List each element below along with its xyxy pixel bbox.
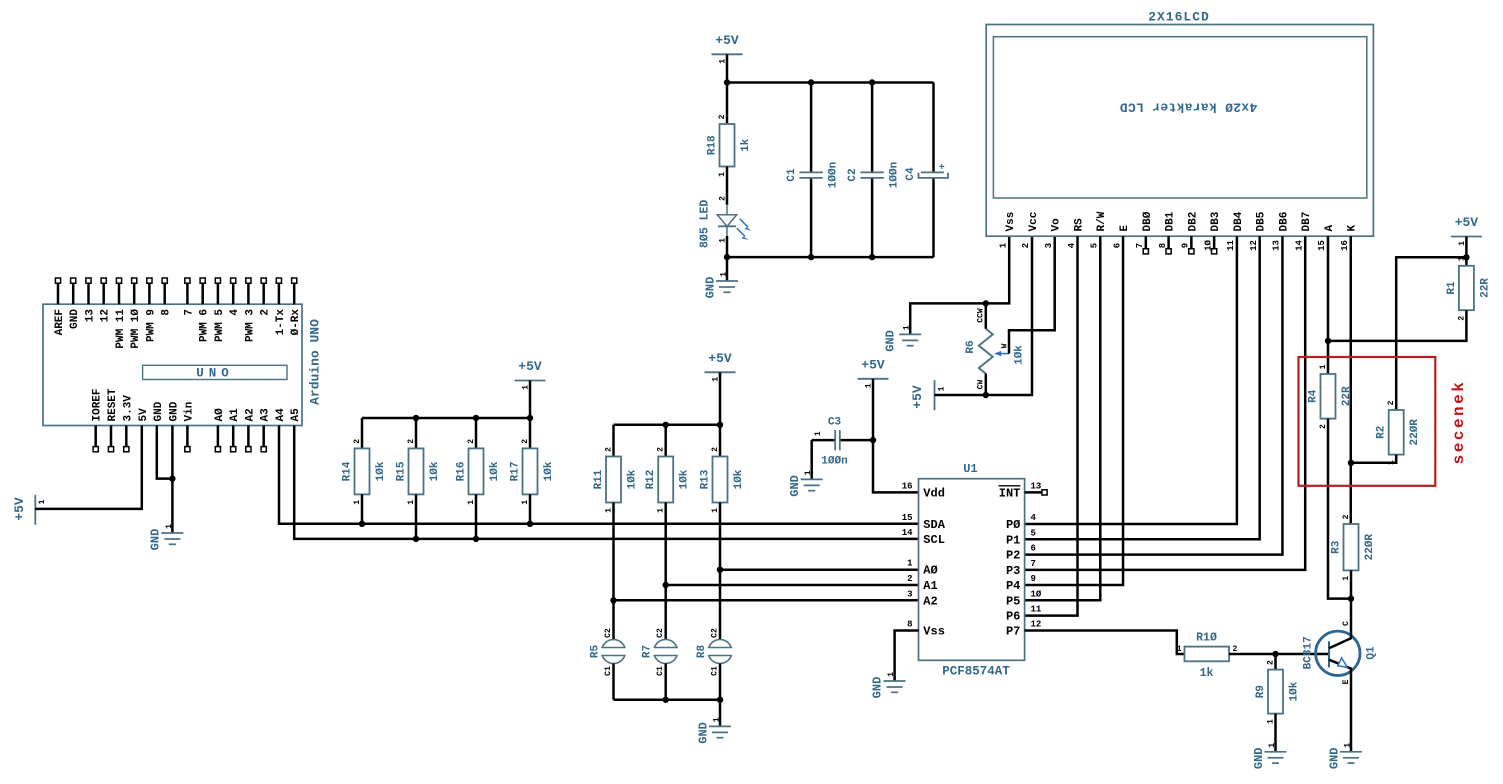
svg-text:7: 7 xyxy=(183,309,195,316)
wire DB6 to P2 xyxy=(1025,236,1283,554)
svg-text:1: 1 xyxy=(907,559,913,569)
wire R13 to node A0 xyxy=(719,503,722,570)
svg-text:GND: GND xyxy=(788,475,802,497)
svg-text:1: 1 xyxy=(887,672,896,677)
svg-text:11: 11 xyxy=(1226,240,1236,251)
resistor R16 xyxy=(469,448,484,494)
wire rail to resistor xyxy=(719,425,722,457)
svg-text:R12: R12 xyxy=(645,470,657,490)
svg-text:Vin: Vin xyxy=(183,402,195,422)
svg-text:1: 1 xyxy=(719,272,728,277)
ground xyxy=(801,478,823,480)
svg-text:C1: C1 xyxy=(786,168,798,182)
Arduino top pin 1-Tx xyxy=(278,283,281,304)
Arduino bottom pin IOREF xyxy=(94,426,97,447)
+5V supply (left) xyxy=(34,495,36,525)
svg-text:C4: C4 xyxy=(905,167,917,181)
svg-text:P2: P2 xyxy=(1006,549,1020,563)
wire +5V to rail xyxy=(719,372,722,425)
svg-text:2: 2 xyxy=(521,439,530,444)
svg-text:R13: R13 xyxy=(699,469,711,489)
wire RS to P6 xyxy=(1025,236,1078,615)
svg-text:R11: R11 xyxy=(593,469,605,489)
svg-text:DB7: DB7 xyxy=(1301,212,1313,232)
Q1 collector xyxy=(1329,599,1351,649)
svg-text:C1: C1 xyxy=(656,666,665,676)
svg-text:A3: A3 xyxy=(260,408,272,422)
svg-text:IOREF: IOREF xyxy=(92,388,104,421)
svg-text:INT: INT xyxy=(999,486,1021,500)
Arduino top pin PWM 1Ø xyxy=(133,283,136,304)
svg-text:1: 1 xyxy=(1342,576,1351,581)
svg-text:GND: GND xyxy=(153,401,165,421)
svg-text:Arduino UNO: Arduino UNO xyxy=(308,319,323,405)
wire GND pin 1 xyxy=(157,426,173,479)
junction xyxy=(473,536,479,542)
svg-text:6: 6 xyxy=(1031,544,1036,554)
svg-text:SDA: SDA xyxy=(923,518,945,532)
svg-text:2: 2 xyxy=(604,447,613,452)
junction xyxy=(724,79,730,85)
svg-text:AØ: AØ xyxy=(214,408,226,422)
wire rail to resistor xyxy=(361,418,364,448)
svg-text:5: 5 xyxy=(1031,528,1036,538)
wire DB5 to P1 xyxy=(1025,236,1260,539)
svg-text:1: 1 xyxy=(1177,645,1182,654)
svg-text:7: 7 xyxy=(1031,559,1036,569)
wire R1 bottom to node A xyxy=(1328,310,1466,341)
svg-text:12: 12 xyxy=(1031,620,1042,630)
Arduino top pin Ø-Rx xyxy=(293,283,296,304)
+5V supply xyxy=(705,371,736,373)
svg-text:R17: R17 xyxy=(509,461,521,481)
svg-text:2: 2 xyxy=(1342,514,1351,519)
svg-text:1Øk: 1Øk xyxy=(429,461,441,481)
transistor Q1 BC817 xyxy=(1316,631,1360,675)
wire button R5 to rail xyxy=(612,664,615,700)
svg-text:3.3V: 3.3V xyxy=(122,395,134,422)
wire button R7 to rail xyxy=(664,664,667,700)
svg-text:Ø-Rx: Ø-Rx xyxy=(290,309,302,336)
svg-text:2: 2 xyxy=(718,114,727,119)
junction xyxy=(663,422,669,428)
ground xyxy=(709,725,731,727)
svg-text:4: 4 xyxy=(1031,513,1037,523)
svg-text:1: 1 xyxy=(657,508,666,513)
capacitor C2 xyxy=(871,83,874,173)
wire rail R11-R13 xyxy=(614,424,721,427)
svg-text:1-Tx: 1-Tx xyxy=(275,309,287,336)
svg-text:1: 1 xyxy=(353,500,362,505)
svg-text:DB4: DB4 xyxy=(1233,211,1245,231)
svg-text:8: 8 xyxy=(1158,243,1168,248)
svg-text:A2: A2 xyxy=(244,408,256,421)
svg-text:14: 14 xyxy=(902,528,913,538)
svg-text:P3: P3 xyxy=(1006,564,1020,578)
capacitor C4 (polarized) xyxy=(932,83,935,173)
svg-text:P6: P6 xyxy=(1006,610,1020,624)
svg-text:1: 1 xyxy=(903,325,912,330)
Arduino bottom pin AØ xyxy=(217,426,220,447)
wire to button R5 xyxy=(612,600,615,639)
Arduino top pin PWM 3 xyxy=(247,283,250,304)
svg-text:1k: 1k xyxy=(1200,667,1214,680)
svg-text:GND: GND xyxy=(703,277,717,299)
svg-text:1Øk: 1Øk xyxy=(375,461,387,481)
wire +5V to Vdd xyxy=(873,379,919,493)
svg-text:Q1: Q1 xyxy=(1365,646,1377,660)
svg-text:C: C xyxy=(1342,621,1351,626)
+5V supply xyxy=(1451,236,1482,238)
svg-text:R1Ø: R1Ø xyxy=(1196,632,1217,645)
node A1 wire xyxy=(666,584,919,587)
ground xyxy=(884,680,906,682)
junction xyxy=(869,79,875,85)
svg-text:1: 1 xyxy=(711,508,720,513)
svg-text:Vcc: Vcc xyxy=(1028,212,1040,232)
svg-text:+5V: +5V xyxy=(861,357,885,372)
svg-text:Vdd: Vdd xyxy=(923,486,945,500)
svg-text:1: 1 xyxy=(814,431,823,436)
svg-text:R14: R14 xyxy=(341,461,353,481)
svg-text:RS: RS xyxy=(1073,218,1085,232)
Arduino top pin 13 xyxy=(87,283,90,304)
svg-text:1: 1 xyxy=(38,499,47,504)
Arduino bottom pin Vin xyxy=(186,426,189,447)
wire R12 to node A1 xyxy=(664,503,667,586)
svg-text:Vo: Vo xyxy=(1051,218,1063,232)
wire to ground xyxy=(726,257,729,281)
Arduino bottom pin A1 xyxy=(232,426,235,447)
pushbutton R5 xyxy=(602,640,626,664)
Arduino top pin GND xyxy=(72,283,75,304)
wire rail to ground xyxy=(719,700,722,727)
wire rail to resistor xyxy=(612,425,615,457)
R6 CCW stub xyxy=(985,303,988,328)
junction xyxy=(1348,595,1354,601)
svg-text:U1: U1 xyxy=(963,462,977,476)
Arduino bottom pin 3.3V xyxy=(125,426,128,447)
junction xyxy=(663,582,669,588)
svg-text:R18: R18 xyxy=(706,135,718,155)
svg-text:1: 1 xyxy=(1268,743,1277,748)
svg-text:1Øk: 1Øk xyxy=(489,461,501,481)
svg-text:AREF: AREF xyxy=(54,309,66,335)
svg-text:+5V: +5V xyxy=(518,359,542,374)
svg-text:1: 1 xyxy=(521,500,530,505)
resistor R9 xyxy=(1268,670,1283,714)
wire +5V to CW and Vcc xyxy=(935,236,1033,395)
U1 INT overline xyxy=(999,485,1021,487)
Arduino top pin 4 xyxy=(232,283,235,304)
wire R11 to node A2 xyxy=(612,503,615,601)
+5V supply xyxy=(712,53,743,55)
svg-text:A4: A4 xyxy=(275,408,287,422)
+5V supply xyxy=(515,380,546,382)
svg-text:1ØØn: 1ØØn xyxy=(828,162,840,188)
wire R9 top xyxy=(1274,654,1277,670)
Q1 emitter arrow xyxy=(1338,658,1347,667)
svg-text:3: 3 xyxy=(1044,243,1054,248)
wire R9 to ground xyxy=(1274,714,1277,752)
svg-text:GND: GND xyxy=(870,677,884,699)
svg-text:R1: R1 xyxy=(1446,281,1458,295)
svg-text:P1: P1 xyxy=(1006,533,1020,547)
svg-text:A2: A2 xyxy=(923,594,937,608)
svg-text:GND: GND xyxy=(696,722,710,744)
svg-text:22ØR: 22ØR xyxy=(1364,534,1376,561)
svg-text:+5V: +5V xyxy=(1455,215,1479,230)
svg-text:16: 16 xyxy=(1340,240,1350,251)
svg-text:1Øk: 1Øk xyxy=(1014,345,1026,365)
svg-text:R9: R9 xyxy=(1255,685,1267,698)
junction xyxy=(808,79,814,85)
svg-text:Vss: Vss xyxy=(1005,212,1017,232)
+5V supply (R6) xyxy=(934,380,936,410)
svg-text:GND: GND xyxy=(1327,747,1341,769)
svg-text:DB3: DB3 xyxy=(1210,211,1222,231)
+5V supply xyxy=(858,378,889,380)
svg-text:C2: C2 xyxy=(604,628,613,638)
wire R3 to collector node xyxy=(1350,570,1353,598)
junction xyxy=(983,300,989,306)
R6 CW stub xyxy=(985,374,988,395)
wire R2 to node K xyxy=(1351,455,1396,463)
svg-text:1k: 1k xyxy=(740,138,752,152)
svg-text:DB1: DB1 xyxy=(1165,211,1177,231)
svg-text:DB2: DB2 xyxy=(1187,212,1199,232)
svg-text:GND: GND xyxy=(69,309,81,329)
svg-text:5V: 5V xyxy=(138,408,150,422)
svg-text:1: 1 xyxy=(407,500,416,505)
svg-text:4x2Ø karakter LCD: 4x2Ø karakter LCD xyxy=(1120,100,1258,115)
wire rail to resistor xyxy=(664,425,667,457)
svg-text:12: 12 xyxy=(100,309,112,322)
svg-text:2: 2 xyxy=(467,439,476,444)
wire to button R8 xyxy=(719,570,722,640)
svg-text:A1: A1 xyxy=(923,579,937,593)
junction xyxy=(724,254,730,260)
svg-text:PWM 3: PWM 3 xyxy=(244,309,256,342)
LED arrows xyxy=(740,219,748,227)
svg-text:E: E xyxy=(1342,679,1351,684)
svg-text:C2: C2 xyxy=(656,628,665,638)
svg-text:2: 2 xyxy=(260,309,272,316)
ground xyxy=(1265,751,1287,753)
Arduino top pin 12 xyxy=(102,283,105,304)
svg-text:1Øk: 1Øk xyxy=(543,461,555,481)
wire to R18 xyxy=(726,83,729,125)
svg-text:1Øk: 1Øk xyxy=(626,469,638,489)
svg-text:R2: R2 xyxy=(1376,426,1388,439)
svg-text:C1: C1 xyxy=(604,666,613,676)
svg-text:C1: C1 xyxy=(710,666,719,676)
pushbutton R8 xyxy=(708,640,732,664)
junction xyxy=(869,254,875,260)
junction xyxy=(527,521,533,527)
svg-text:14: 14 xyxy=(1294,240,1304,251)
svg-text:15: 15 xyxy=(902,513,913,523)
svg-text:5: 5 xyxy=(1090,243,1100,248)
svg-text:+5V: +5V xyxy=(910,385,925,409)
resistor R1 xyxy=(1459,266,1474,310)
svg-text:8Ø5 LED: 8Ø5 LED xyxy=(699,200,712,248)
svg-text:4: 4 xyxy=(229,309,241,316)
svg-text:SCL: SCL xyxy=(923,533,945,547)
wire R18 to LED xyxy=(726,167,729,206)
wire R15 to SCL xyxy=(415,494,418,539)
junction xyxy=(717,567,723,573)
svg-text:GND: GND xyxy=(149,529,163,551)
wire LED to rail xyxy=(726,236,729,257)
svg-text:7: 7 xyxy=(1135,243,1145,248)
wire A4 to SDA xyxy=(279,426,919,524)
LED D1 805 xyxy=(726,204,728,215)
svg-text:8: 8 xyxy=(161,309,173,316)
wire R10 to Q1 base xyxy=(1229,653,1329,656)
resistor R11 xyxy=(606,457,621,503)
Arduino bottom pin A3 xyxy=(262,426,265,447)
svg-text:R4: R4 xyxy=(1307,389,1319,403)
resistor R2 xyxy=(1389,410,1404,455)
resistor R15 xyxy=(409,448,424,494)
junction xyxy=(359,521,365,527)
LCD display 2X16LCD body xyxy=(986,25,1373,237)
svg-text:13: 13 xyxy=(1031,481,1042,491)
resistor R14 xyxy=(355,448,370,494)
wire E to P4 xyxy=(1025,236,1123,585)
svg-text:R/W: R/W xyxy=(1096,211,1108,231)
potentiometer R6 xyxy=(979,329,993,374)
Arduino top pin 7 xyxy=(186,283,189,304)
Arduino bottom pin A2 xyxy=(247,426,250,447)
wire P7 to R10 xyxy=(1025,631,1185,655)
svg-text:1: 1 xyxy=(1319,364,1328,369)
wire A5 to SCL xyxy=(294,426,918,539)
svg-text:2: 2 xyxy=(1319,424,1328,429)
svg-text:RESET: RESET xyxy=(107,388,119,421)
wire R/W to P5 xyxy=(1025,236,1101,600)
svg-text:1: 1 xyxy=(1266,719,1275,724)
svg-text:DB5: DB5 xyxy=(1256,211,1268,231)
Arduino top pin PWM 5 xyxy=(217,283,220,304)
bottom rail xyxy=(727,256,934,259)
wire Vss to ground xyxy=(895,631,919,682)
svg-text:A1: A1 xyxy=(229,408,241,422)
svg-text:E: E xyxy=(1119,225,1131,232)
junction xyxy=(1272,651,1278,657)
svg-text:2: 2 xyxy=(907,574,912,584)
wire R16 to SCL xyxy=(475,494,478,539)
R6 wiper arrow xyxy=(1001,353,1010,355)
svg-text:secenek: secenek xyxy=(1450,380,1468,465)
svg-text:C3: C3 xyxy=(828,417,842,429)
Arduino top pin PWM 9 xyxy=(148,283,151,304)
svg-text:C2: C2 xyxy=(710,628,719,638)
svg-text:22R: 22R xyxy=(1479,278,1491,298)
svg-text:2: 2 xyxy=(1266,660,1275,665)
svg-text:AØ: AØ xyxy=(923,564,937,578)
svg-text:2: 2 xyxy=(711,447,720,452)
svg-text:2: 2 xyxy=(1233,645,1238,654)
resistor R18 xyxy=(720,124,735,167)
Arduino top pin AREF xyxy=(57,283,60,304)
svg-text:2: 2 xyxy=(657,447,666,452)
wire DB7 to P3 xyxy=(1025,236,1306,570)
ground xyxy=(1340,751,1362,753)
svg-text:GND: GND xyxy=(168,401,180,421)
Arduino top pin PWM 6 xyxy=(201,283,204,304)
node A2 wire xyxy=(614,599,919,602)
node A0 wire xyxy=(720,568,919,571)
svg-text:P4: P4 xyxy=(1006,579,1020,593)
svg-text:PWM 6: PWM 6 xyxy=(199,309,211,342)
svg-text:22ØR: 22ØR xyxy=(1409,419,1421,446)
top rail xyxy=(727,81,934,84)
resistor R3 xyxy=(1344,524,1359,570)
resistor R12 xyxy=(658,457,673,503)
wire +5V to rail xyxy=(529,381,532,419)
svg-text:1: 1 xyxy=(998,242,1008,248)
IC U1 PCF8574AT body xyxy=(919,479,1025,661)
svg-text:2: 2 xyxy=(407,439,416,444)
svg-text:9: 9 xyxy=(1181,243,1191,248)
Arduino top pin 8 xyxy=(163,283,166,304)
svg-text:1Øk: 1Øk xyxy=(733,469,745,489)
svg-text:+: + xyxy=(939,163,945,174)
svg-text:BC817: BC817 xyxy=(1303,636,1315,669)
svg-text:PWM 9: PWM 9 xyxy=(145,309,157,342)
wire rail R14-R17 xyxy=(362,417,530,420)
svg-text:1: 1 xyxy=(604,508,613,513)
svg-text:1ØØn: 1ØØn xyxy=(889,162,901,188)
svg-text:A5: A5 xyxy=(290,408,302,422)
svg-text:R6: R6 xyxy=(965,340,977,353)
Q1 emitter xyxy=(1329,660,1351,752)
svg-text:PWM 1Ø: PWM 1Ø xyxy=(130,309,142,349)
wire rail to resistor xyxy=(475,418,478,448)
svg-text:+5V: +5V xyxy=(708,351,732,366)
wire +5V to R1 xyxy=(1465,237,1468,266)
junction xyxy=(610,597,616,603)
svg-text:3: 3 xyxy=(907,589,912,599)
Arduino top pin 2 xyxy=(262,283,265,304)
svg-text:6: 6 xyxy=(1112,243,1122,248)
svg-text:2: 2 xyxy=(1457,316,1466,321)
ground xyxy=(161,532,183,534)
resistor R10 xyxy=(1185,647,1230,662)
junction xyxy=(473,415,479,421)
junction xyxy=(870,437,876,443)
resistor R17 xyxy=(523,448,538,494)
svg-text:K: K xyxy=(1347,225,1359,232)
svg-text:1: 1 xyxy=(467,500,476,505)
svg-text:P7: P7 xyxy=(1006,625,1020,639)
resistor R13 xyxy=(713,457,728,503)
wire C3 to ground xyxy=(810,440,813,479)
svg-text:13: 13 xyxy=(84,309,96,323)
svg-text:1ØØn: 1ØØn xyxy=(821,456,847,468)
svg-text:PWM 5: PWM 5 xyxy=(214,309,226,342)
svg-text:R8: R8 xyxy=(696,645,708,659)
svg-text:1Øk: 1Øk xyxy=(679,469,691,489)
wire GND pin 2 xyxy=(171,426,174,534)
capacitor C3 xyxy=(840,439,873,442)
svg-text:1: 1 xyxy=(1343,743,1352,748)
junction xyxy=(1463,254,1469,260)
svg-text:R15: R15 xyxy=(395,461,407,481)
svg-text:R5: R5 xyxy=(589,645,601,659)
